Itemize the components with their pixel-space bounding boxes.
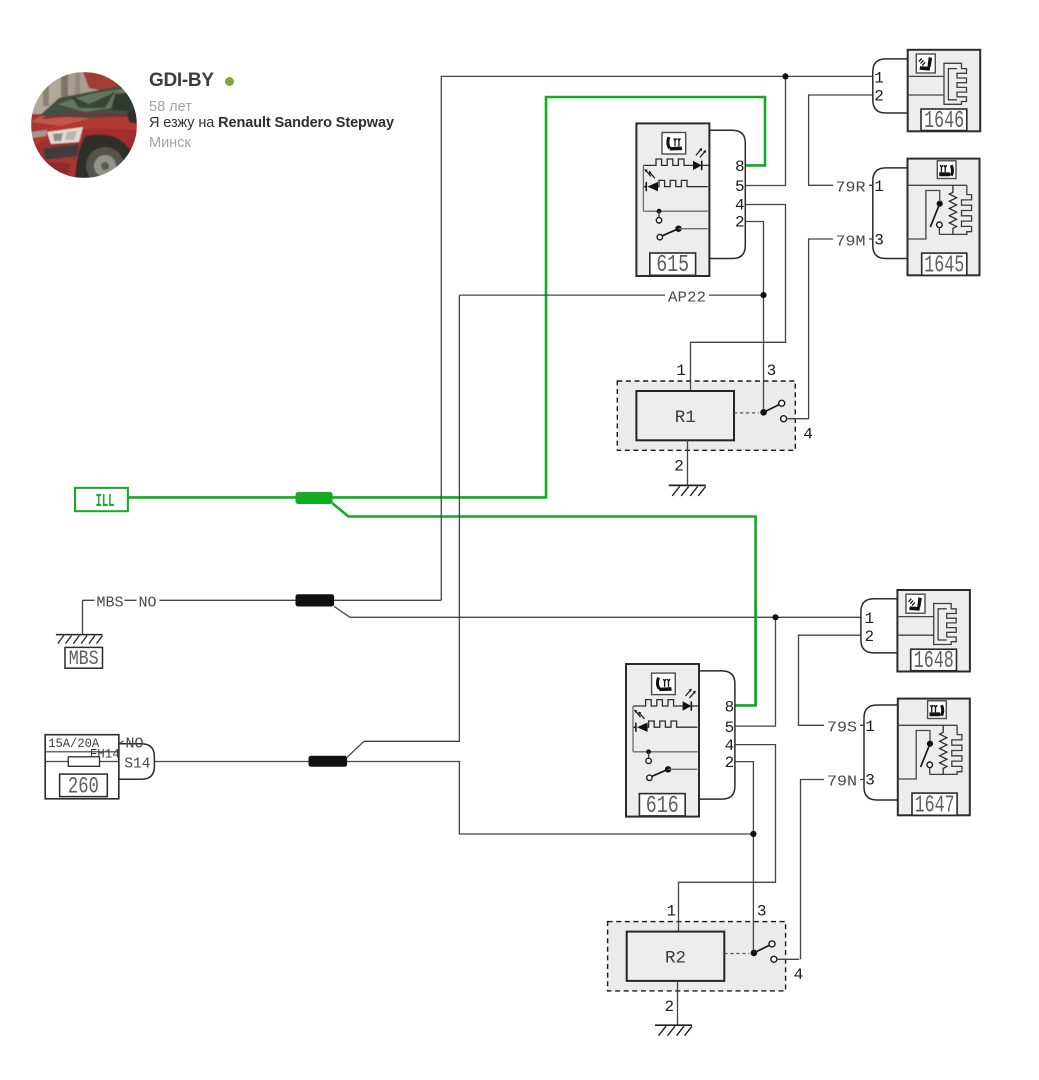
svg-text:260: 260 — [68, 773, 99, 799]
svg-text:616: 616 — [646, 793, 679, 820]
header block — [0, 0, 1039, 200]
svg-text:1: 1 — [864, 610, 874, 628]
svg-text:AP22: AP22 — [668, 290, 706, 306]
splice on ILL wire — [296, 492, 333, 504]
wire green overlay at MBS crossing — [754, 600, 757, 705]
net label 79S — [824, 718, 860, 737]
wire fuse S14 output to splice — [154, 761, 310, 763]
svg-text:ILL: ILL — [96, 492, 115, 512]
wire R1 pin 4 to 79M to 1645 pin 3 — [809, 239, 876, 419]
wire 1646 pin 2 to 79R to 1645 pin 1 — [809, 95, 876, 185]
net label 79N — [824, 772, 860, 791]
wire ILL green feed to 615 pin 8 — [128, 97, 765, 497]
svg-text:1: 1 — [865, 718, 875, 736]
svg-text:2: 2 — [864, 628, 874, 646]
wire junction to 616 pin 5 — [735, 617, 776, 726]
svg-text:1: 1 — [874, 178, 884, 196]
MBS ground label box — [65, 647, 103, 670]
avatar photo: red car — [31, 72, 137, 178]
wire R2 pin 2 to ground — [677, 981, 679, 1025]
svg-text:615: 615 — [656, 252, 689, 279]
net label 79R — [833, 178, 869, 197]
ground MBS — [56, 635, 103, 644]
wire S14 feed riser with diagonal to splice — [347, 295, 459, 757]
component 1645: seat cushion heating element with thermoswitch — [908, 159, 980, 276]
wire MBS riser + top feed line to 1646 pin 1 — [441, 76, 876, 600]
net label NO on wire — [137, 593, 160, 612]
wire R1 pin 2 to ground — [687, 450, 689, 485]
svg-text:S14: S14 — [124, 756, 150, 772]
net label 79M — [833, 232, 869, 251]
svg-text:FH14: FH14 — [90, 747, 120, 762]
connector of 1647 (pins 1,3) — [864, 705, 898, 800]
node junction top feed / 615 pin 5 — [782, 73, 788, 79]
wire MBS ground drop — [82, 600, 84, 634]
wire AP22 line — [459, 294, 763, 296]
svg-text:3: 3 — [865, 772, 875, 790]
ground below R1 — [669, 485, 706, 496]
node junction MBS line / 616 pin 5 — [772, 614, 778, 620]
node AP22 junction — [760, 292, 766, 298]
component 1648: seat backrest heating element — [897, 590, 970, 672]
svg-text:1647: 1647 — [915, 793, 955, 820]
wire MBS branch to 1648 pin 1 — [334, 606, 865, 617]
net label NO at fuse connector — [119, 736, 144, 752]
svg-text:3: 3 — [874, 232, 884, 250]
splice on S14 wire — [309, 756, 348, 767]
connector of 1648 (pins 1,2) — [861, 599, 898, 653]
relay R1 — [617, 362, 813, 475]
svg-text:79S: 79S — [827, 721, 857, 737]
svg-text:R2: R2 — [665, 948, 686, 968]
wire S14 straight branch to R2 feed — [347, 762, 753, 835]
splice on MBS wire — [296, 594, 335, 606]
svg-text:MBS: MBS — [97, 595, 124, 611]
svg-text:MBS: MBS — [69, 648, 99, 671]
svg-text:1645: 1645 — [924, 253, 964, 280]
net label MBS on wire — [95, 593, 125, 612]
svg-text:79N: 79N — [827, 775, 857, 791]
svg-text:79R: 79R — [836, 181, 866, 197]
component 260: fuse box FH14 — [45, 735, 154, 800]
wire 615 pin 2 to AP22 node to R1 pin 3 — [745, 222, 763, 410]
connector of 1646 (pins 1,2) — [873, 59, 908, 113]
wire 1648 pin 2 to 79S to 1647 pin 1 — [799, 635, 866, 725]
connector of 1645 (pins 1,3) — [873, 168, 908, 259]
svg-text:NO: NO — [126, 736, 144, 752]
relay R2 — [608, 903, 804, 1016]
wire 616 pin 4 to relay R2 pin 1 — [679, 745, 776, 932]
component 616: heated seat switch — [626, 664, 735, 817]
svg-text:1: 1 — [874, 70, 884, 88]
wire ILL green branch to 616 pin 8 — [332, 503, 756, 705]
wire junction to 615 pin 5 — [745, 76, 785, 185]
ILL source box — [75, 488, 128, 512]
ground below R2 — [655, 1025, 692, 1036]
component 1646: seat backrest heating element — [908, 50, 981, 132]
wire MBS-NO line — [83, 599, 442, 601]
wire 616 pin 2 to R2 pin 3 — [735, 762, 754, 950]
wire 615 pin 4 to relay R1 pin 1 — [691, 205, 786, 392]
svg-text:R1: R1 — [675, 408, 696, 428]
component 615: heated seat switch — [636, 123, 745, 276]
svg-text:NO: NO — [139, 595, 157, 611]
svg-text:2: 2 — [874, 88, 884, 106]
svg-text:79M: 79M — [836, 235, 866, 251]
svg-text:1646: 1646 — [924, 108, 964, 135]
wire R2 pin 4 to 79N to 1647 pin 3 — [801, 780, 866, 960]
component 1647: seat cushion heating element with thermoswitch — [898, 699, 970, 816]
net label AP22 — [665, 287, 709, 306]
node junction S14 line / R2 pin 3 — [750, 831, 756, 837]
wire stems crossing relay dashed zones — [678, 381, 764, 991]
svg-text:1648: 1648 — [914, 648, 954, 675]
